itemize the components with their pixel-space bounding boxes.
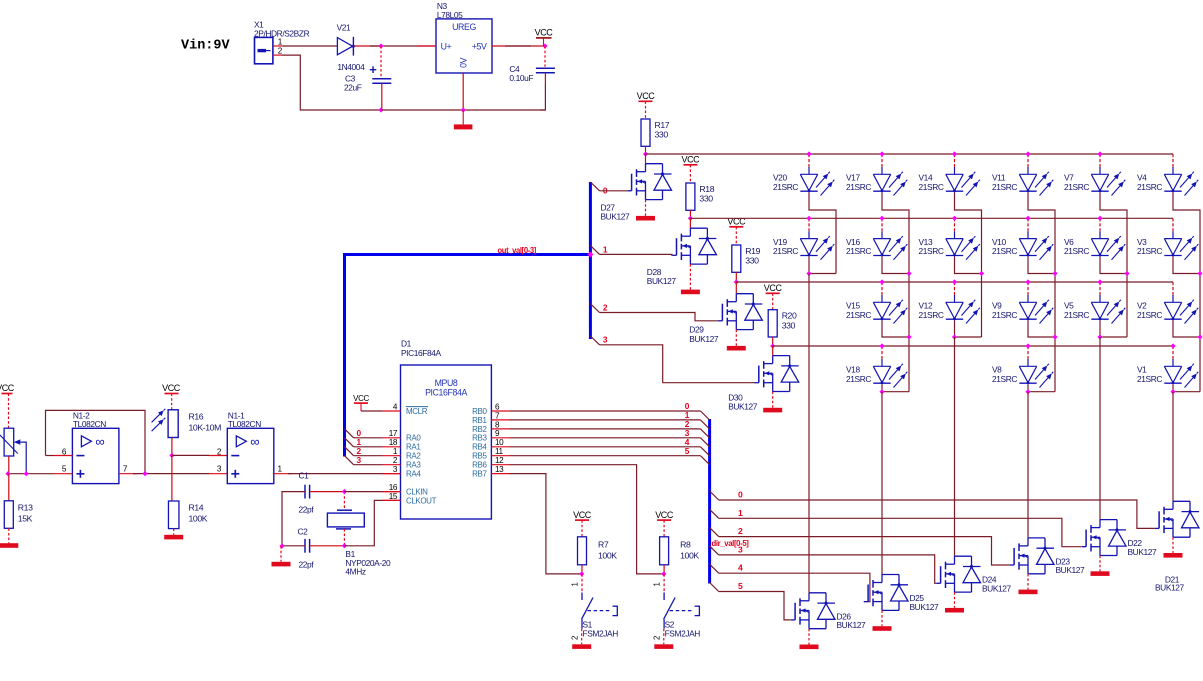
wire signal 3 to D24 gate: [719, 555, 937, 583]
wire V5 cathode to column node: [1099, 321, 1101, 338]
wire X1 pin1 to diode V21: [282, 45, 337, 47]
node junction pot/R13: [5, 471, 10, 476]
wire V1 cathode to column node: [1172, 385, 1174, 392]
ground below D27: [645, 200, 647, 216]
svg-text:dir_val[0-5]: dir_val[0-5]: [712, 538, 749, 548]
svg-text:330: 330: [745, 256, 759, 266]
wire RB2 to dir bus signal 2: [510, 428, 701, 430]
node junction R18/D28/rail: [688, 216, 693, 221]
svg-text:1: 1: [571, 583, 580, 587]
svg-text:21SRC: 21SRC: [846, 310, 871, 320]
svg-text:BUK127: BUK127: [1056, 565, 1086, 575]
svg-text:21SRC: 21SRC: [919, 182, 944, 192]
wire V15 cathode jog to column bus: [882, 321, 909, 392]
op-amp N1-1 TL082CN: [227, 428, 273, 483]
wire RB7 to R7/S1 node: [510, 474, 582, 574]
op-amp N1-2 TL082CN: [72, 428, 119, 483]
svg-text:VCC: VCC: [353, 394, 369, 403]
bus dir_val[0-5]: [708, 419, 711, 584]
svg-text:17: 17: [389, 429, 398, 438]
node junction column bus 5: [1124, 271, 1129, 276]
wire signal 2 to D23 gate: [719, 537, 1010, 565]
node junction feedback/output: [142, 471, 147, 476]
svg-text:CLKIN: CLKIN: [406, 488, 428, 497]
svg-text:R16: R16: [189, 412, 204, 422]
svg-text:RA0: RA0: [406, 434, 421, 443]
svg-text:22pf: 22pf: [299, 560, 315, 570]
wire V8 cathode to column node: [1027, 385, 1029, 392]
svg-text:4MHz: 4MHz: [345, 567, 365, 577]
wire C4 to ground rail: [540, 84, 545, 110]
wire V9 cathode jog to column bus: [1028, 321, 1055, 392]
svg-text:BUK127: BUK127: [910, 602, 940, 612]
node V16 anode junction: [879, 216, 884, 221]
ground below R14: [173, 529, 175, 535]
ground below D22: [1099, 556, 1101, 572]
svg-text:21SRC: 21SRC: [1137, 182, 1162, 192]
bus entry signal 4: [710, 564, 719, 573]
svg-text:11: 11: [495, 447, 504, 456]
svg-text:FSM2JAH: FSM2JAH: [665, 628, 701, 638]
ground below D23: [1027, 574, 1029, 590]
feedback wire N1-2 output to pin 6: [46, 410, 146, 473]
svg-text:VCC: VCC: [655, 510, 674, 520]
svg-text:C1: C1: [299, 471, 310, 481]
LED V7 21SRC: [1099, 154, 1101, 167]
svg-text:0V: 0V: [459, 57, 469, 67]
svg-text:5: 5: [738, 581, 743, 591]
svg-text:21SRC: 21SRC: [846, 246, 871, 256]
wire V11 cathode jog to column bus: [1028, 193, 1055, 274]
svg-text:21SRC: 21SRC: [992, 182, 1017, 192]
wire signal 0 to D21 gate: [719, 500, 1155, 528]
svg-text:21SRC: 21SRC: [846, 374, 871, 384]
wire column 3 down to driver: [954, 337, 956, 556]
wire column bus 5 return: [1100, 336, 1127, 338]
node bus corner junction: [587, 252, 593, 258]
wire signal 3 to D30 gate: [590, 336, 599, 345]
svg-text:VCC: VCC: [573, 510, 592, 520]
wire column bus 6 return: [1173, 391, 1200, 393]
svg-text:R19: R19: [745, 246, 760, 256]
node V1 anode junction: [1170, 343, 1175, 348]
ground below C1/C2: [280, 546, 282, 562]
transistor D24 BUK127: [955, 555, 972, 557]
node junction column bus 2: [906, 271, 911, 276]
svg-text:BUK127: BUK127: [1128, 547, 1158, 557]
transistor D22 BUK127: [1100, 519, 1117, 521]
wire R16 to R14: [171, 455, 173, 501]
resistor R7 100K: [578, 537, 587, 565]
bus entry signal 3: [710, 546, 719, 555]
wire signal 1 to D28 gate: [590, 246, 599, 255]
wire V20 cathode jog to column bus: [809, 193, 836, 274]
svg-text:21SRC: 21SRC: [1137, 310, 1162, 320]
C1 left lead: [282, 492, 305, 546]
photoresistor R16 10K-10M: [168, 410, 178, 438]
bus entry signal 2: [710, 528, 719, 537]
wire X1 pin2 down to ground rail: [282, 55, 381, 110]
node junction CLKOUT/C2/crystal: [342, 543, 347, 548]
C2 right lead to crystal bottom node: [310, 545, 345, 547]
anode rail row 3: [736, 281, 1173, 283]
svg-text:VCC: VCC: [764, 283, 783, 293]
ground below S2: [663, 629, 665, 645]
svg-text:21SRC: 21SRC: [773, 182, 798, 192]
svg-text:RB2: RB2: [472, 425, 487, 434]
svg-text:BUK127: BUK127: [689, 334, 719, 344]
node junction column 6 cathode: [1170, 389, 1175, 394]
node junction R8/S2: [661, 571, 666, 576]
transistor D21 BUK127: [1173, 500, 1190, 502]
svg-text:21SRC: 21SRC: [1064, 246, 1089, 256]
node junction column bus 4: [1052, 334, 1057, 339]
svg-text:R14: R14: [189, 503, 204, 513]
bus entry to RA0 signal 0: [345, 429, 354, 438]
bus entry signal 5: [710, 583, 719, 592]
svg-text:U+: U+: [441, 42, 452, 52]
svg-text:RB3: RB3: [472, 434, 487, 443]
node junction column bus 6: [1197, 271, 1202, 276]
wire column 4 down to driver: [1027, 392, 1029, 538]
LED V14 21SRC: [954, 154, 956, 167]
crystal B1 NYP020A-20 4MHz: [337, 509, 352, 511]
node junction 0V/ground rail: [461, 107, 466, 112]
wire column 6 down to driver: [1172, 392, 1174, 502]
node V5 anode junction: [1097, 279, 1102, 284]
svg-text:CLKOUT: CLKOUT: [406, 496, 437, 505]
svg-text:100K: 100K: [598, 550, 617, 560]
node junction R16/R14/pin2: [169, 453, 174, 458]
transistor D28 BUK127: [689, 218, 691, 228]
node V18 anode junction: [879, 343, 884, 348]
svg-text:3: 3: [738, 544, 743, 554]
svg-text:330: 330: [782, 320, 796, 330]
anode rail row 2: [690, 217, 1173, 219]
node junction column bus 4: [1052, 271, 1057, 276]
potentiometer R15: [4, 428, 14, 456]
svg-text:Vin:9V: Vin:9V: [181, 39, 231, 54]
svg-text:16: 16: [389, 483, 398, 492]
bus entry signal 0: [710, 491, 719, 500]
LED V16 21SRC: [881, 218, 883, 231]
svg-text:15: 15: [389, 492, 398, 501]
anode rail row 4: [773, 345, 1173, 347]
wire V6 cathode jog to column bus: [1100, 257, 1127, 337]
wire signal 5 to D26 gate: [719, 592, 791, 620]
LED V2 21SRC: [1172, 282, 1174, 295]
svg-text:100K: 100K: [189, 514, 208, 524]
LED V1 21SRC: [1172, 346, 1174, 359]
wire CLKOUT: [344, 500, 382, 545]
LED V20 21SRC: [808, 154, 810, 167]
resistor R14 100K: [168, 501, 179, 529]
wire V3 cathode jog to column bus: [1173, 257, 1200, 337]
bus entry to RA3 signal 3: [345, 456, 354, 465]
svg-text:BUK127: BUK127: [837, 620, 867, 630]
resistor R17 330: [641, 119, 650, 146]
svg-text:2: 2: [571, 636, 580, 640]
svg-text:∞: ∞: [95, 434, 104, 449]
svg-text:4: 4: [738, 563, 743, 573]
wire RB3 to dir bus signal 3: [510, 437, 701, 439]
svg-text:RB5: RB5: [472, 452, 487, 461]
ground below D21: [1172, 537, 1174, 553]
svg-text:PIC16F84A: PIC16F84A: [401, 348, 442, 358]
svg-text:RA4: RA4: [406, 470, 421, 479]
LED V9 21SRC: [1027, 282, 1029, 295]
ground below D25: [881, 610, 883, 626]
svg-text:RB0: RB0: [472, 407, 487, 416]
svg-text:VCC: VCC: [162, 383, 181, 393]
svg-text:100K: 100K: [680, 550, 699, 560]
svg-text:RB6: RB6: [472, 461, 487, 470]
bus entry signal 1: [710, 509, 719, 518]
svg-text:R20: R20: [782, 311, 797, 321]
transistor D25 BUK127: [882, 574, 899, 576]
svg-text:R8: R8: [680, 539, 691, 549]
LED V13 21SRC: [954, 218, 956, 231]
svg-text:22pf: 22pf: [299, 505, 315, 515]
node junction column bus 2: [906, 334, 911, 339]
svg-text:VCC: VCC: [681, 155, 700, 165]
wire RB0 to dir bus signal 0: [510, 410, 701, 412]
pot bottom lead: [8, 456, 10, 474]
svg-text:BUK127: BUK127: [647, 276, 677, 286]
svg-text:RA3: RA3: [406, 461, 421, 470]
svg-text:21SRC: 21SRC: [992, 310, 1017, 320]
svg-text:R7: R7: [598, 539, 609, 549]
svg-text:V21: V21: [337, 23, 351, 33]
node V12 anode junction: [952, 279, 957, 284]
node V15 anode junction: [879, 279, 884, 284]
wire V21 to C3 junction: [353, 45, 381, 47]
transistor D23 BUK127: [1028, 537, 1045, 539]
svg-text:VCC: VCC: [535, 28, 554, 38]
svg-text:21SRC: 21SRC: [919, 246, 944, 256]
LED V6 21SRC: [1099, 218, 1101, 231]
svg-text:21SRC: 21SRC: [992, 374, 1017, 384]
wire signal 1 to D22 gate: [719, 518, 1082, 546]
svg-text:2: 2: [738, 526, 743, 536]
svg-text:21SRC: 21SRC: [1064, 310, 1089, 320]
wire column bus 4 return: [1028, 391, 1055, 393]
svg-text:13: 13: [495, 465, 504, 474]
wire V19 cathode to column node: [808, 257, 810, 274]
pin5 lead: [54, 473, 72, 475]
ground below D24: [954, 592, 956, 608]
wire column bus 3 return: [955, 336, 982, 338]
wire V4 cathode jog to column bus: [1173, 193, 1200, 274]
wire RB1 to dir bus signal 1: [510, 419, 701, 421]
svg-text:21SRC: 21SRC: [846, 182, 871, 192]
svg-text:+5V: +5V: [472, 42, 487, 52]
ground below S1: [581, 629, 583, 645]
wire column bus 2 return: [882, 391, 909, 393]
svg-text:VCC: VCC: [0, 383, 15, 393]
node V19 anode junction: [806, 216, 811, 221]
wire divider to N1-1 pin2: [172, 454, 209, 456]
svg-text:out_val[0-3]: out_val[0-3]: [498, 245, 537, 255]
LED V17 21SRC: [881, 154, 883, 167]
wire signal 0 to D27 gate: [590, 182, 599, 191]
svg-text:RB7: RB7: [472, 470, 487, 479]
node junction column 3 cathode: [952, 334, 957, 339]
svg-text:18: 18: [389, 438, 398, 447]
node junction wiper: [24, 471, 29, 476]
node V8 anode junction: [1025, 343, 1030, 348]
wire V2 cathode jog to column bus: [1173, 321, 1200, 392]
svg-text:VCC: VCC: [637, 91, 656, 101]
svg-text:15K: 15K: [18, 514, 33, 524]
node V20 anode junction: [806, 151, 811, 156]
node junction column 5 cathode: [1097, 334, 1102, 339]
transistor D30 BUK127: [772, 346, 774, 356]
svg-text:+: +: [369, 62, 377, 77]
node junction R17/D27/rail: [643, 151, 648, 156]
LED V18 21SRC: [881, 346, 883, 359]
svg-text:BUK127: BUK127: [1155, 582, 1185, 592]
svg-text:TL082CN: TL082CN: [73, 419, 106, 429]
svg-text:21SRC: 21SRC: [992, 246, 1017, 256]
wire V13 cathode jog to column bus: [955, 257, 982, 337]
svg-text:MCLR: MCLR: [406, 407, 428, 416]
wire CLKIN: [344, 491, 382, 493]
svg-text:RA1: RA1: [406, 443, 421, 452]
svg-text:1: 1: [653, 583, 662, 587]
wire column 1 down to driver: [808, 274, 810, 593]
svg-text:RB4: RB4: [472, 443, 487, 452]
wire V18 cathode to column node: [881, 385, 883, 392]
LED V4 21SRC: [1172, 154, 1174, 167]
connector X1 2P/HDR/S2BZR: [255, 37, 273, 63]
node V17 anode junction: [879, 151, 884, 156]
node junction column 1 cathode: [806, 271, 811, 276]
LED V10 21SRC: [1027, 218, 1029, 231]
node V10 anode junction: [1025, 216, 1030, 221]
svg-text:BUK127: BUK127: [601, 212, 631, 222]
svg-text:12: 12: [495, 456, 504, 465]
node junction column 2 cathode: [879, 389, 884, 394]
wire column 2 down to driver: [881, 392, 883, 575]
svg-text:10: 10: [495, 438, 504, 447]
svg-text:21SRC: 21SRC: [773, 246, 798, 256]
bus entry to RA2 signal 2: [345, 447, 354, 456]
svg-text:BUK127: BUK127: [728, 402, 758, 412]
LED V3 21SRC: [1172, 218, 1174, 231]
wire N1-2 out to N1-1 pin3: [172, 473, 209, 475]
node V7 anode junction: [1097, 151, 1102, 156]
wire column 5 down to driver: [1099, 337, 1101, 520]
node junction column bus 6: [1197, 334, 1202, 339]
svg-text:UREG: UREG: [452, 22, 476, 32]
N1-2 output pin7 wire: [119, 473, 137, 475]
LED V19 21SRC: [808, 218, 810, 231]
svg-text:21SRC: 21SRC: [1137, 374, 1162, 384]
svg-text:D1: D1: [401, 339, 412, 349]
svg-text:330: 330: [655, 130, 669, 140]
resistor R8 100K: [660, 537, 669, 565]
resistor R20 330: [768, 310, 777, 337]
ground rail wire: [381, 109, 545, 111]
ground below D28: [689, 264, 691, 290]
svg-text:21SRC: 21SRC: [919, 310, 944, 320]
svg-text:RB1: RB1: [472, 416, 487, 425]
node V11 anode junction: [1025, 151, 1030, 156]
wire signal 2 to D29 gate: [590, 304, 599, 313]
ground below D29: [735, 330, 737, 346]
node V6 anode junction: [1097, 216, 1102, 221]
C2 left lead: [282, 545, 305, 547]
svg-text:PIC16F84A: PIC16F84A: [425, 388, 467, 398]
wire V10 cathode jog to column bus: [1028, 257, 1055, 337]
wire V14 cathode jog to column bus: [955, 193, 982, 274]
svg-text:2: 2: [653, 636, 662, 640]
LED V5 21SRC: [1099, 282, 1101, 295]
wire V12 cathode to column node: [954, 321, 956, 338]
node junction R20/D30/rail: [770, 343, 775, 348]
LED V12 21SRC: [954, 282, 956, 295]
node junction diode/C3: [378, 43, 383, 48]
svg-text:R17: R17: [655, 120, 670, 130]
node junction column bus 3: [979, 271, 984, 276]
node junction column 4 cathode: [1025, 389, 1030, 394]
node V9 anode junction: [1025, 279, 1030, 284]
node junction R19/D29/rail: [734, 279, 739, 284]
LED V8 21SRC: [1027, 346, 1029, 359]
wire column bus 1 return: [809, 273, 836, 275]
wire RB4 to dir bus signal 4: [510, 446, 701, 448]
anode rail row 1: [646, 153, 1174, 155]
transistor D26 BUK127: [809, 592, 826, 594]
resistor R18 330: [686, 183, 695, 210]
UREG 0V pin to ground rail: [462, 73, 464, 110]
pin6 lead: [54, 455, 72, 457]
svg-text:21SRC: 21SRC: [1137, 246, 1162, 256]
LED V15 21SRC: [881, 282, 883, 295]
ground symbol below UREG: [462, 110, 464, 124]
wire pot to opamp pin5: [8, 473, 54, 475]
wire VCC to MCLR: [361, 410, 383, 412]
ground below R13: [8, 528, 10, 543]
C1 right lead to CLKIN node: [310, 491, 345, 493]
node V14 anode junction: [952, 151, 957, 156]
wire V16 cathode jog to column bus: [882, 257, 909, 337]
svg-text:0: 0: [738, 490, 743, 500]
node junction +5V/VCC/C4: [542, 43, 547, 48]
wire into UREG U+ pin: [418, 45, 436, 47]
svg-text:FSM2JAH: FSM2JAH: [583, 628, 619, 638]
ground below D26: [808, 629, 810, 645]
bus entry to RA1 signal 1: [345, 438, 354, 447]
svg-text:TL082CN: TL082CN: [228, 419, 261, 429]
transistor D29 BUK127: [735, 282, 737, 294]
wire V7 cathode jog to column bus: [1100, 193, 1127, 274]
svg-text:C2: C2: [298, 527, 309, 537]
resistor R13 15K: [8, 474, 10, 501]
svg-text:22uF: 22uF: [344, 83, 362, 93]
svg-text:0.10uF: 0.10uF: [509, 73, 533, 83]
wire signal 4 to D25 gate: [719, 573, 870, 601]
wire RB5 to dir bus signal 5: [510, 455, 701, 457]
resistor R19 330: [732, 245, 741, 272]
svg-text:R18: R18: [699, 184, 714, 194]
node junction C2/ground leg: [279, 543, 284, 548]
node junction R7/S1: [579, 571, 584, 576]
svg-text:R13: R13: [18, 503, 33, 513]
node junction CLKIN/C1/crystal: [342, 489, 347, 494]
svg-text:MPU8: MPU8: [435, 378, 458, 388]
